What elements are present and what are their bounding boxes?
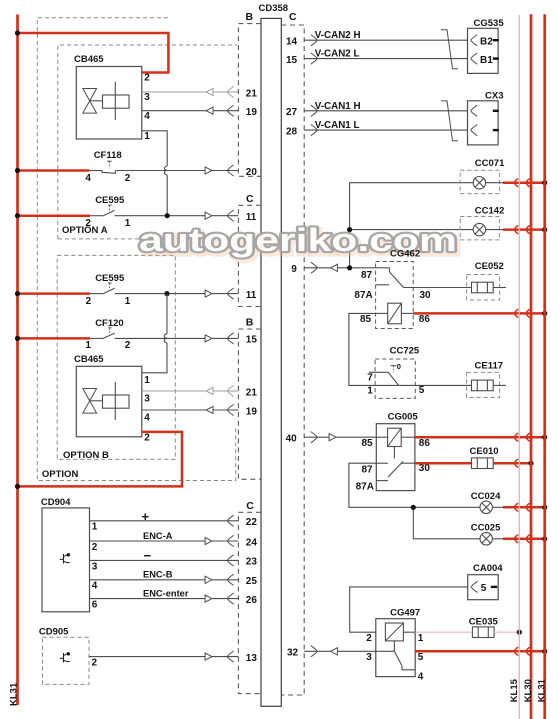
wire CD904-4 (ENC-B) to pin 25 [90,579,239,581]
svg-text:CE052: CE052 [475,261,504,272]
svg-text:85: 85 [360,314,372,325]
signal label ENC-enter [143,588,189,598]
wire pin 15 V-CAN2 L [304,53,467,64]
pin 22 label [246,517,258,528]
label OPTION B [63,450,109,461]
wire CD904-1 (+) to pin 22 [90,520,239,522]
ECU connector CD358 body [261,18,281,706]
connector symbol pin 15 row [205,333,234,344]
twisted pair mark V-CAN2 [441,30,458,69]
wire pin 28 V-CAN1 L [304,125,467,136]
junction CE595A node [165,213,170,218]
section label B upper [246,11,254,23]
encoder CD904 [41,497,90,612]
twisted pair mark V-CAN1 [441,101,458,141]
pin 32 label [287,648,299,659]
svg-text:ENC-B: ENC-B [143,570,173,580]
svg-text:2: 2 [366,633,372,644]
switch CE595 (option B) [95,273,125,294]
svg-text:4: 4 [418,672,424,683]
watermark autogeriko.com [139,222,459,261]
pin 15 label [286,55,298,66]
svg-text:4: 4 [92,581,98,592]
wire CE595-1 to pin 11 [90,215,238,217]
svg-text:CG497: CG497 [390,608,420,619]
pin 9 label [291,264,297,275]
svg-text:CC142: CC142 [475,205,505,216]
connector symbol pin 22 row [227,515,233,526]
pin labels CF120 [85,340,130,351]
svg-text:−: − [144,548,152,563]
pin 11 label A [246,212,257,223]
power bus KL15 vertical wire [518,15,520,719]
connector symbol pin 26 row [205,593,234,604]
svg-text:22: 22 [246,517,258,528]
connector symbol pin 24 row [205,535,234,546]
wire red CC024 to KL31 [492,503,544,511]
label OPTION [42,469,79,480]
pin 21 label B [246,387,258,398]
label KL15 [509,678,520,702]
wire pin 40 to CG005-85 [304,432,376,443]
svg-text:KL30: KL30 [523,679,534,702]
svg-text:+: + [142,509,150,524]
svg-text:B: B [246,316,254,328]
svg-text:2: 2 [85,218,91,229]
svg-text:V-CAN1 H: V-CAN1 H [315,101,361,112]
junction CC142 KL31 [542,227,547,232]
junction CG462-86 KL31 [542,311,547,316]
svg-text:1: 1 [85,340,91,351]
switch CE595 (option A) [95,195,125,216]
wire pin 27 V-CAN1 H [304,105,467,116]
svg-text:V-CAN1 L: V-CAN1 L [315,120,360,131]
svg-text:KL15: KL15 [509,678,520,702]
svg-text:KL31: KL31 [536,678,547,702]
svg-text:CE035: CE035 [469,616,499,627]
pin 19 label A [246,107,258,118]
junction on bus CF118 row [15,168,20,173]
svg-text:13: 13 [246,653,258,664]
wire pin 14 V-CAN2 H [304,35,467,46]
fuse CE035 [469,616,499,637]
svg-text:87A: 87A [356,482,374,493]
pin 23 label [246,557,258,568]
dashed box OPTION A [58,45,237,239]
svg-text:CE117: CE117 [475,360,504,371]
valve CB465 (option B) [74,354,150,444]
svg-text:2: 2 [86,296,92,307]
connector symbol pin 11 row B [205,288,234,299]
switch CF118 [94,150,122,173]
label KL31 left [9,682,20,706]
svg-text:B1: B1 [480,55,493,66]
svg-text:V-CAN2 L: V-CAN2 L [315,49,360,60]
svg-text:2: 2 [144,433,150,444]
svg-text:OPTION B: OPTION B [63,450,109,461]
svg-text:87: 87 [361,270,373,281]
wire CD904-2 (ENC-A) to pin 24 [90,540,239,542]
pin 21 label A [246,88,258,99]
lamp CC024 [471,491,501,514]
connector symbol pin 13 row [205,651,234,662]
junction on bus return row [15,484,20,489]
svg-text:C: C [246,193,254,205]
wire red bus to CF120-1 [18,337,91,340]
junction pin9 node [347,265,352,270]
connector symbol pin 23 row [227,555,233,566]
svg-text:86: 86 [419,438,431,449]
wire CD904-6 (ENC-enter) to pin 26 [90,598,239,600]
wire CG005-87 to lamps CC024/CC025 [349,463,480,539]
junction riser CC142 branch [347,227,352,232]
svg-text:CC725: CC725 [390,345,420,356]
svg-text:C: C [246,500,254,512]
signal label V-CAN2 H [315,30,361,41]
wire red bus to CE595B-2 [18,292,91,295]
svg-text:9: 9 [291,264,297,275]
pin 1 label CD904 [92,522,98,533]
svg-text:23: 23 [246,557,258,568]
lamp CC025 [471,522,501,545]
svg-text:87: 87 [362,465,374,476]
fuse CE010 [470,446,499,469]
svg-text:4: 4 [144,413,150,424]
section label B lower [246,316,254,328]
svg-text:3: 3 [366,652,372,663]
svg-text:1: 1 [125,296,131,307]
wire red CB465B-2 return to bus [18,432,183,487]
svg-text:30: 30 [419,463,431,474]
svg-text:86: 86 [419,314,431,325]
svg-text:3: 3 [144,92,150,103]
svg-text:ENC-enter: ENC-enter [143,588,189,598]
pin 28 label [286,126,298,137]
svg-text:V-CAN2 H: V-CAN2 H [315,30,361,41]
connector strip B/C left dashed sections [238,24,261,694]
relay CG462 [354,248,431,328]
svg-text:CG535: CG535 [474,18,505,29]
pin 11 label B [246,290,257,301]
wire red CG005-30 to CE010 [415,462,472,465]
connector symbol pin 21 row A [206,86,234,97]
encoder CD905 [39,626,89,684]
junction on bus CE595A row [15,213,20,218]
signal label + [142,509,150,524]
valve CB465 (option A) [74,54,150,142]
svg-text:CB465: CB465 [74,354,104,365]
wire red bus to CE595-2 [18,214,91,217]
wire red CC071 to KL31 [486,179,545,187]
connector symbol pin 19 row A [206,105,234,116]
connector strip C right dashed edge [281,25,304,695]
svg-text:CD905: CD905 [39,626,69,637]
svg-text:7: 7 [367,372,373,383]
svg-text:CE010: CE010 [470,446,499,457]
svg-text:40: 40 [286,434,298,445]
svg-text:ENC-A: ENC-A [143,531,173,541]
wire red CG497-5 to KL31 [415,647,545,655]
pin 40 label [286,434,298,445]
signal label &#8722; [144,548,152,563]
junction CC071 KL31 [542,180,547,185]
wire riser to lamps [350,183,474,268]
wire CB465-3 to pin 21 [142,91,239,93]
pin labels CF118 [85,173,130,184]
svg-text:19: 19 [246,107,258,118]
switch CF120 [95,318,124,339]
wire pin 9 to CG462-87 [304,262,375,273]
svg-text:B2: B2 [480,36,493,47]
wire red bus to CF118-4 [18,169,90,172]
svg-text:4: 4 [85,173,91,184]
pin 14 label [286,37,298,48]
fuse CE117 [467,360,506,397]
svg-text:4: 4 [144,111,150,122]
wire red CE010 to KL30 [493,459,531,467]
pin 24 label [246,537,258,548]
junction CG005-86 KL31 [542,435,547,440]
connector CG535 [468,18,505,73]
relay CG005 [356,411,431,492]
svg-text:2: 2 [125,340,131,351]
svg-text:CG462: CG462 [390,248,420,259]
svg-text:24: 24 [246,537,258,548]
lamp CC071 [460,158,505,194]
svg-text:CA004: CA004 [473,563,503,574]
svg-text:15: 15 [286,55,298,66]
signal label ENC-A [143,531,173,541]
svg-text:3: 3 [144,394,150,405]
wire red CC142 to KL31 [486,225,545,233]
svg-text:11: 11 [246,290,257,301]
svg-text:B: B [246,11,254,23]
junction CC025 KL31 [542,536,547,541]
dashed box OPTION B [57,255,175,459]
label KL31 right [536,678,547,702]
svg-text:30: 30 [420,290,432,301]
signal label V-CAN1 L [315,120,360,131]
svg-text:2: 2 [92,658,98,669]
svg-text:6: 6 [92,600,98,611]
svg-text:26: 26 [246,595,258,606]
junction CE010 KL30 [528,461,533,466]
dashed box OPTION outer [37,18,235,481]
wire CG497-1 to CE035 [415,631,472,633]
wire CD905-2 to pin 13 [89,656,238,658]
junction CE595B node [164,291,169,296]
junction on bus CE595B row [15,291,20,296]
connector symbol pin 19 row B [206,404,234,415]
pin 20 label [246,167,258,178]
svg-text:CX3: CX3 [485,91,503,102]
switch CC725 [367,345,425,398]
section label C right [289,11,297,23]
wire red bus to CB465 pin 2 [18,33,169,73]
junction on bus CF120 row [15,336,20,341]
wire CE595B-1 to pin 11 [90,293,238,295]
pin labels CE595 A [85,218,130,229]
svg-text:1: 1 [418,633,424,644]
pin 2 label CD904 [92,542,98,553]
svg-text:1: 1 [367,386,373,397]
svg-text:CB465: CB465 [74,54,104,65]
junction on bus at y33 [15,30,20,35]
junction CC024 branch [411,505,416,510]
pin 15 label [246,335,258,346]
pin 13 label [246,653,258,664]
svg-text:15: 15 [246,335,258,346]
pin 25 label [246,576,258,587]
connector symbol pin 21 row B [206,385,234,396]
svg-text:5: 5 [418,652,424,663]
svg-text:19: 19 [246,406,258,417]
svg-text:25: 25 [246,576,258,587]
pin labels CE595 B [86,296,131,307]
svg-text:2: 2 [144,73,150,84]
svg-text:2: 2 [125,173,131,184]
svg-text:27: 27 [286,107,298,118]
signal label V-CAN2 L [315,49,360,60]
wire red CG005-86 to KL31 [415,433,545,441]
svg-text:1: 1 [144,375,150,386]
svg-text:C: C [289,11,297,23]
wire red CC025 to KL31 [492,535,544,543]
label OPTION A [62,225,108,236]
svg-text:KL31: KL31 [9,682,20,706]
wire CA004 to CG497-2 [350,587,468,632]
pin 27 label [286,107,298,118]
power bus KL30 vertical wire [530,14,533,719]
signal label V-CAN1 H [315,101,361,112]
svg-text:32: 32 [287,648,299,659]
pin 19 label B [246,406,258,417]
wire pin 32 to CG497-3 [304,646,376,657]
svg-text:5: 5 [419,385,425,396]
svg-text:85: 85 [362,438,374,449]
wire CG462-30 to CE052 [404,287,472,289]
svg-text:OPTION: OPTION [42,469,79,480]
junction CE035 KL15 [517,630,522,635]
svg-text:14: 14 [286,37,298,48]
connector symbol pin 11 row A [205,210,234,221]
svg-text:CD358: CD358 [259,3,289,14]
connector CX3 [468,91,504,145]
svg-text:CG005: CG005 [388,411,419,422]
wire CB465B-3 to pin 21 [142,390,239,392]
wire CF120-2 to pin 15 [90,337,238,339]
connector CA004 [468,563,504,600]
svg-text:28: 28 [286,126,298,137]
junction CG497-5 KL31 [542,649,547,654]
svg-text:87A: 87A [354,290,372,301]
wire CE035 to KL15 [494,631,519,633]
lamp CC142 [460,205,504,240]
svg-text:0: 0 [397,362,401,371]
wire CC725-5 to CE117 [399,384,472,386]
power bus KL31 left vertical wire [16,15,19,706]
svg-text:3: 3 [92,561,98,572]
pin 4 label CD904 [92,581,98,592]
pin 6 label CD904 [92,600,98,611]
svg-text:1: 1 [125,218,131,229]
wire CG462-85 to CC725-1 [349,313,399,385]
svg-text:21: 21 [246,88,258,99]
label CD358 [259,3,289,14]
signal label ENC-B [143,570,173,580]
svg-text:5: 5 [481,583,487,594]
pin 3 label CD904 [92,561,98,572]
svg-text:1: 1 [144,131,150,142]
wire CB465-4 to pin 19 [142,110,239,112]
svg-text:CC071: CC071 [475,158,505,169]
section label C upper-left [246,193,254,205]
svg-text:CF118: CF118 [94,150,122,161]
connector symbol pin 25 row [205,574,234,585]
junction CC024 KL31 [542,505,547,510]
wire CF118-2 to pin 20 [89,170,238,172]
section label C lower-left [246,500,254,512]
wire CB465B-1 up to CE595B node [142,294,167,373]
wire CD904-3 (&#8722;) to pin 23 [90,559,239,561]
pin 2 label CD905 [92,658,98,669]
svg-text:2: 2 [92,542,98,553]
svg-text:CC025: CC025 [471,522,501,533]
wire red CG462-86 to KL31 [413,309,545,317]
label KL30 [523,679,534,702]
connector symbol pin 20 row [205,165,234,176]
svg-text:CD904: CD904 [41,497,71,508]
fuse CE052 [467,261,506,300]
power bus KL31 right vertical wire [543,14,546,719]
svg-text:1: 1 [92,522,98,533]
pin 26 label [246,595,258,606]
svg-text:CC024: CC024 [471,491,501,502]
wire CB465-1 down to CE595 node [142,131,167,216]
svg-text:21: 21 [246,387,258,398]
wire CB465B-4 to pin 19 [142,409,239,411]
relay CG497 [366,608,424,683]
svg-text:CE595: CE595 [95,195,125,206]
